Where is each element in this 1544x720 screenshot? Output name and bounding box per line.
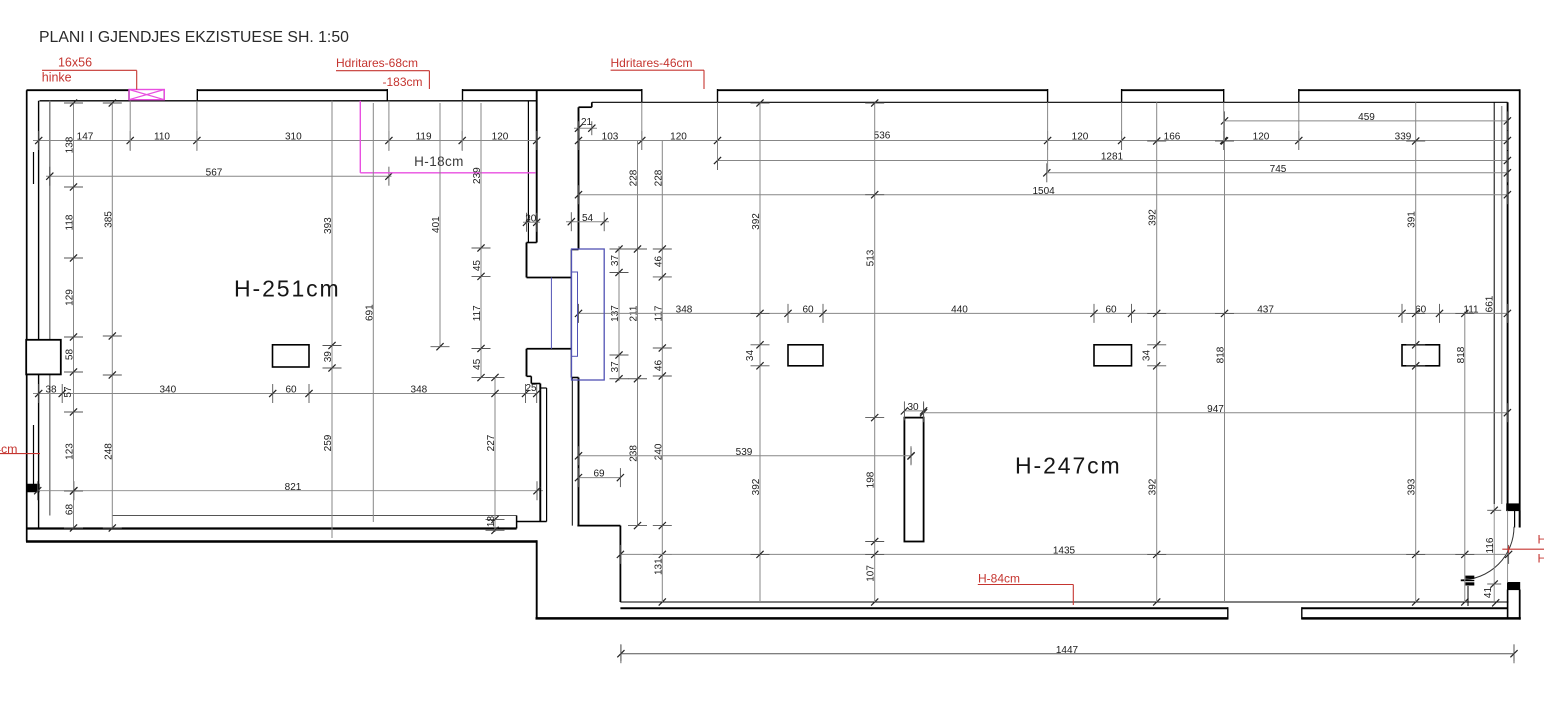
svg-text:691: 691 [364,304,375,321]
svg-text:38: 38 [45,385,57,396]
svg-text:391: 391 [1407,211,1418,228]
svg-text:-183cm: -183cm [382,75,422,89]
svg-text:393: 393 [323,217,334,234]
svg-text:110: 110 [154,132,170,143]
svg-text:120: 120 [1253,132,1270,143]
svg-text:118: 118 [65,214,76,230]
svg-text:129: 129 [65,289,76,306]
svg-text:240: 240 [653,443,664,460]
svg-text:103: 103 [602,132,619,143]
svg-text:H: H [1538,552,1544,566]
svg-text:401: 401 [431,216,442,233]
svg-text:20: 20 [525,213,537,224]
svg-text:60: 60 [1105,305,1117,316]
svg-text:H-247cm: H-247cm [1015,453,1122,479]
svg-text:45: 45 [472,260,483,272]
svg-text:348: 348 [411,385,428,396]
svg-text:818: 818 [1216,346,1227,363]
svg-text:248: 248 [103,443,114,460]
svg-text:58: 58 [65,349,76,361]
svg-text:Hdritares-46cm: Hdritares-46cm [610,56,692,70]
svg-text:1504: 1504 [1032,186,1055,197]
svg-text:440: 440 [951,305,968,316]
svg-text:21: 21 [581,117,593,128]
svg-text:310: 310 [285,132,302,143]
svg-text:340: 340 [159,385,176,396]
svg-text:46: 46 [653,360,664,372]
svg-text:1281: 1281 [1101,152,1124,163]
svg-text:745: 745 [1270,164,1287,175]
svg-text:348: 348 [676,305,693,316]
svg-text:18: 18 [486,516,497,528]
svg-text:H-18cm: H-18cm [414,154,464,169]
svg-text:238: 238 [629,445,640,462]
svg-text:131: 131 [653,558,664,575]
svg-text:H-251cm: H-251cm [234,276,341,302]
svg-text:111: 111 [1463,305,1479,316]
svg-text:119: 119 [416,132,432,143]
svg-text:818: 818 [1456,346,1467,363]
svg-text:hinke: hinke [42,71,72,85]
svg-text:385: 385 [103,211,114,228]
svg-text:16x56: 16x56 [58,56,92,70]
svg-text:120: 120 [670,132,687,143]
svg-text:120: 120 [492,132,509,143]
svg-text:68: 68 [65,504,76,516]
svg-text:392: 392 [1148,209,1159,226]
svg-text:1435: 1435 [1053,546,1076,557]
svg-text:567: 567 [206,167,223,178]
svg-text:947: 947 [1207,404,1224,415]
svg-text:821: 821 [285,482,302,493]
svg-text:513: 513 [866,249,877,266]
svg-text:46: 46 [653,256,664,268]
svg-text:60: 60 [285,385,297,396]
svg-text:392: 392 [1148,478,1159,495]
svg-text:120: 120 [1072,132,1089,143]
svg-text:PLANI I GJENDJES EKZISTUESE SH: PLANI I GJENDJES EKZISTUESE SH. 1:50 [39,29,349,46]
svg-text:228: 228 [653,169,664,186]
svg-text:661: 661 [1485,295,1496,312]
svg-text:147: 147 [77,132,94,143]
svg-text:536: 536 [874,131,891,142]
svg-text:Hdritares-68cm: Hdritares-68cm [336,56,418,70]
svg-text:228: 228 [629,169,640,186]
svg-text:539: 539 [736,447,753,458]
svg-text:1447: 1447 [1056,645,1079,656]
svg-text:116: 116 [1485,537,1496,553]
svg-text:392: 392 [751,213,762,230]
svg-text:259: 259 [323,434,334,451]
svg-text:239: 239 [472,167,483,184]
svg-text:57: 57 [63,386,74,398]
svg-text:25: 25 [525,383,537,394]
svg-text:138: 138 [65,136,76,153]
svg-text:117: 117 [472,305,483,321]
svg-text:30: 30 [907,402,919,413]
svg-text:39: 39 [323,351,334,363]
svg-text:H: H [1538,533,1544,547]
svg-text:41: 41 [1483,587,1494,599]
svg-text:437: 437 [1257,305,1274,316]
svg-text:37: 37 [610,255,621,267]
svg-text:166: 166 [1164,132,1181,143]
svg-text:69: 69 [593,469,605,480]
svg-text:60: 60 [802,305,814,316]
svg-text:198: 198 [866,471,877,488]
svg-text:392: 392 [751,478,762,495]
svg-text:54: 54 [582,213,594,224]
svg-text:393: 393 [1407,478,1418,495]
svg-text:123: 123 [65,443,76,460]
svg-text:45: 45 [472,358,483,370]
svg-text:107: 107 [866,565,877,582]
svg-text:227: 227 [486,434,497,451]
svg-text:34: 34 [745,350,756,362]
svg-text:H-84cm: H-84cm [978,571,1020,585]
svg-text:459: 459 [1358,112,1375,123]
svg-text:60: 60 [1415,305,1427,316]
svg-text:34: 34 [1142,350,1153,362]
svg-text:37: 37 [610,361,621,373]
